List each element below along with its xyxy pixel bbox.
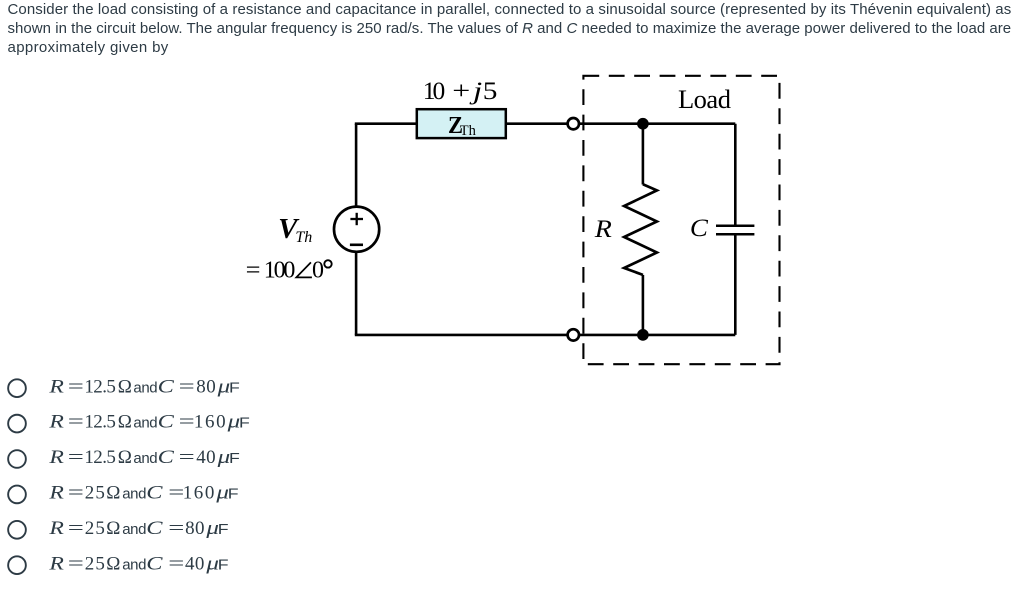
- svg-text:80: 80: [185, 518, 205, 539]
- svg-text:Ω: Ω: [118, 412, 132, 433]
- svg-text:Ω: Ω: [118, 376, 132, 397]
- wire: capacitor branch lower: [734, 234, 737, 335]
- option 3 radio button: [8, 450, 26, 468]
- voltage source minus sign: [350, 244, 363, 247]
- svg-text:25: 25: [85, 518, 106, 539]
- option 1 radio button: [8, 379, 26, 397]
- svg-text:=: =: [246, 258, 261, 284]
- svg-text:C: C: [158, 411, 175, 432]
- svg-text:=: =: [68, 553, 84, 574]
- wire: bottom horizontal: [355, 334, 736, 337]
- svg-text:25: 25: [85, 483, 106, 504]
- svg-text:R: R: [48, 482, 64, 503]
- terminal a (open circle, top): [568, 118, 579, 129]
- svg-text:and: and: [133, 415, 157, 432]
- resistor R zigzag: [624, 184, 657, 275]
- svg-text:F: F: [218, 557, 229, 573]
- svg-text:=: =: [179, 411, 195, 432]
- svg-text:Ω: Ω: [106, 483, 120, 504]
- svg-text:=: =: [68, 518, 84, 539]
- svg-text:j: j: [469, 78, 483, 106]
- svg-text:Load: Load: [678, 84, 731, 114]
- svg-text:and: and: [133, 379, 157, 396]
- svg-text:F: F: [229, 379, 240, 395]
- wire: capacitor branch upper: [734, 124, 737, 226]
- svg-text:=: =: [168, 518, 184, 539]
- svg-text:C: C: [158, 447, 175, 468]
- wire: left vertical upper (source +): [355, 124, 358, 208]
- impedance box Z_Th: [417, 109, 506, 138]
- svg-text:100: 100: [264, 258, 296, 284]
- wire: left vertical lower (source -): [355, 251, 358, 335]
- svg-text:and: and: [122, 486, 146, 503]
- svg-text:12.5: 12.5: [84, 376, 115, 397]
- option 2 text: R = 12.5 ohm and C = 160 uF: [48, 411, 250, 433]
- svg-text:40: 40: [185, 553, 205, 574]
- svg-text:Ω: Ω: [106, 518, 120, 539]
- svg-text:=: =: [68, 411, 84, 432]
- svg-text:Th: Th: [295, 229, 312, 246]
- svg-text:R: R: [48, 517, 64, 538]
- svg-text:C: C: [146, 517, 163, 538]
- option 5 text: R = 25 ohm and C = 80 uF: [48, 517, 228, 539]
- svg-text:R: R: [48, 376, 64, 397]
- voltage source V_Th circle: [334, 207, 379, 252]
- svg-text:=: =: [179, 447, 195, 468]
- option 6 text: R = 25 ohm and C = 40 uF: [48, 552, 228, 574]
- svg-text:5: 5: [483, 77, 498, 105]
- svg-text:R: R: [48, 553, 64, 574]
- svg-text:160: 160: [183, 483, 216, 504]
- svg-text:=: =: [179, 376, 195, 397]
- svg-text:=: =: [68, 447, 84, 468]
- terminal b (open circle, bottom): [568, 329, 579, 340]
- value label: angle symbol: [296, 262, 312, 277]
- svg-text:Th: Th: [460, 123, 477, 139]
- option 5 radio button: [8, 521, 26, 539]
- option 3 text: R = 12.5 ohm and C = 40 uF: [48, 446, 240, 468]
- svg-text:12.5: 12.5: [84, 412, 115, 433]
- capacitor C plates: [716, 226, 754, 235]
- svg-text:C: C: [690, 214, 709, 242]
- value label: degree symbol: [324, 260, 331, 267]
- svg-text:and: and: [122, 521, 146, 538]
- svg-text:=: =: [68, 376, 84, 397]
- wire: top horizontal (source to load): [355, 122, 736, 125]
- svg-text:and: and: [133, 450, 157, 467]
- svg-text:160: 160: [194, 412, 227, 433]
- load boundary dashed box: [583, 76, 779, 364]
- question text: [8, 0, 1024, 57]
- svg-text:and: and: [122, 556, 146, 573]
- voltage source plus sign: [350, 213, 363, 225]
- svg-text:C: C: [146, 553, 163, 574]
- svg-text:F: F: [218, 521, 229, 537]
- svg-text:R: R: [48, 446, 64, 467]
- svg-text:F: F: [239, 415, 250, 431]
- option 2 radio button: [8, 415, 26, 433]
- svg-text:12.5: 12.5: [84, 447, 115, 468]
- svg-text:R: R: [594, 214, 612, 242]
- svg-text:40: 40: [196, 447, 216, 468]
- option 6 radio button: [8, 556, 26, 574]
- svg-text:+: +: [452, 77, 470, 105]
- svg-text:C: C: [146, 482, 163, 503]
- svg-text:C: C: [158, 376, 175, 397]
- svg-text:Ω: Ω: [106, 553, 120, 574]
- node: top junction dot: [637, 118, 649, 130]
- svg-text:25: 25: [85, 553, 106, 574]
- wire: resistor bottom lead: [642, 275, 645, 335]
- svg-text:0: 0: [312, 258, 324, 284]
- svg-text:80: 80: [196, 376, 216, 397]
- svg-text:F: F: [229, 450, 240, 466]
- node: bottom junction dot: [637, 329, 649, 341]
- option 4 text: R = 25 ohm and C = 160 uF: [48, 482, 238, 504]
- svg-text:10: 10: [423, 76, 445, 105]
- svg-text:=: =: [68, 482, 84, 503]
- option 1 text: R = 12.5 ohm and C = 80 uF: [48, 375, 240, 397]
- wire: resistor top lead: [642, 124, 645, 185]
- svg-text:F: F: [228, 486, 239, 502]
- option 4 radio button: [8, 486, 26, 504]
- svg-text:=: =: [168, 553, 184, 574]
- svg-text:R: R: [48, 411, 64, 432]
- svg-text:Ω: Ω: [118, 447, 132, 468]
